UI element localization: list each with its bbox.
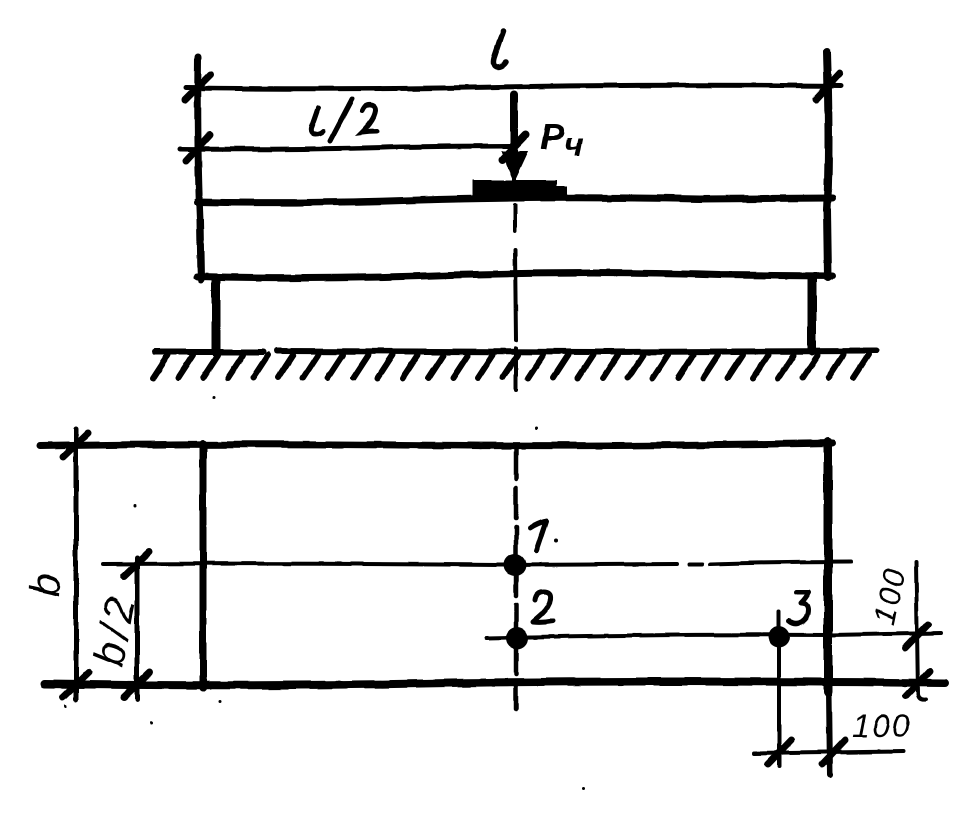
svg-text:ч: ч: [564, 126, 584, 164]
svg-text:100: 100: [852, 708, 911, 744]
svg-text:b: b: [21, 572, 69, 597]
svg-text:P: P: [540, 116, 565, 157]
